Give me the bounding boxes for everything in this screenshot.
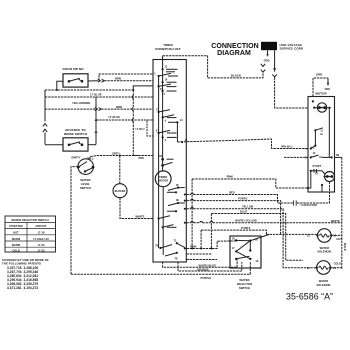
timer terminal 5 (162, 90, 177, 96)
wire grey run down to buzzer (119, 155, 121, 184)
timer contact white entry (158, 216, 171, 220)
wire WHITE+YELLOW timer to white return (184, 218, 342, 223)
wire bus to rinse switch (45, 144, 63, 146)
svg-text:POSITION: POSITION (9, 224, 22, 228)
svg-text:3E: 3E (176, 199, 179, 202)
water selector switch table (5, 216, 56, 252)
svg-text:GRD: GRD (325, 88, 331, 91)
wire LT BLU vertical drop to timer (132, 90, 140, 156)
timer right-side contact 3E (167, 191, 185, 212)
ground pin arrow of plug (264, 50, 270, 62)
svg-text:6: 6 (165, 120, 167, 123)
timer terminal 2 (162, 136, 177, 142)
svg-text:WARM: WARM (12, 237, 20, 241)
svg-text:PURPLE: PURPLE (201, 276, 212, 280)
timer terminal B1 (159, 155, 173, 160)
svg-text:1: 1 (154, 73, 156, 76)
svg-text:8: 8 (156, 129, 158, 132)
svg-text:COLD: COLD (12, 248, 20, 252)
cold water solenoid (307, 261, 341, 275)
svg-text:2: 2 (165, 139, 167, 142)
svg-text:WARM: WARM (12, 243, 20, 247)
wire black lead from timer to plug (163, 56, 263, 78)
wire door switch to timer (BRN) with inline connector (88, 77, 153, 83)
line voltage service cord plug (261, 42, 277, 50)
timer bottom contact TE (165, 252, 178, 261)
white return bus (331, 157, 342, 269)
wire PURPLE long run water level to selector 19 (71, 262, 250, 280)
svg-text:YELLOW/RED: YELLOW/RED (72, 101, 90, 105)
wire YELLOW timer to cold solenoid (184, 204, 317, 267)
svg-text:LT BLUE: LT BLUE (109, 115, 121, 119)
wire line lead from plug to motor (275, 78, 308, 109)
connector chevrons on line lead (272, 74, 276, 77)
svg-text:1: 1 (87, 170, 89, 172)
label WATER SELECTOR SWITCH (237, 278, 253, 290)
wire LT BLUE upper (45, 93, 153, 97)
buzzer (113, 184, 127, 198)
timer terminal 12 (162, 66, 178, 72)
patent notice text (2, 258, 49, 290)
svg-text:LT BLU: LT BLU (136, 128, 145, 131)
svg-text:HI: HI (320, 133, 323, 136)
svg-text:WHITE: WHITE (331, 219, 340, 223)
wire short drop x147 (147, 121, 153, 136)
svg-text:KNOB/PUSH OFF: KNOB/PUSH OFF (155, 47, 181, 51)
svg-text:LT BLUE: LT BLUE (90, 93, 102, 97)
timer internal bus left (158, 76, 160, 248)
svg-text:PURP.2: PURP.2 (241, 226, 251, 230)
motor main winding (312, 100, 331, 112)
svg-text:WATER: WATER (320, 246, 329, 250)
wire terminal 12 to black lead (162, 56, 164, 70)
timer terminal 6 (162, 115, 177, 123)
svg-text:20: 20 (232, 238, 235, 241)
label ADVANCE TO RINSE SWITCH (64, 128, 88, 136)
svg-text:RED: RED (229, 190, 235, 194)
timer terminal 13 (168, 119, 183, 143)
line pin arrow of plug (273, 50, 276, 72)
riser bus C right of timer (210, 214, 212, 249)
timer terminal B2 (161, 162, 172, 166)
wire rinse switch riser with arrows (95, 97, 98, 145)
svg-text:17-20: 17-20 (38, 248, 45, 252)
wire PURPLE timer to hot feed junction (184, 196, 281, 234)
riser bus B right of timer (200, 230, 202, 248)
motor box (308, 97, 335, 193)
title: CONNECTION DIAGRAM (211, 43, 259, 57)
svg-text:20: 20 (307, 267, 310, 270)
svg-text:TL: TL (174, 239, 178, 242)
svg-text:F2: F2 (315, 173, 319, 176)
wire WHITE buzzer to timer (120, 198, 153, 219)
svg-text:1M: 1M (336, 154, 339, 157)
label LINE VOLTAGE SERVICE CORD (280, 43, 304, 51)
svg-text:17: 17 (232, 247, 235, 250)
timer bottom contact TL (174, 239, 185, 247)
svg-text:WHITE: WHITE (136, 214, 145, 218)
wire timer bottom ORANGE to selector (178, 262, 242, 272)
motor bottom terminal for pink (307, 171, 323, 192)
svg-text:WATER SELECTOR SWITCH: WATER SELECTOR SWITCH (11, 218, 48, 222)
svg-text:WHITE+YELLOW: WHITE+YELLOW (235, 218, 257, 222)
rinse switch SW2 (63, 138, 88, 151)
wire fork door switch to timer terminal 1 (99, 74, 153, 81)
svg-text:HOT: HOT (337, 238, 343, 241)
svg-text:DIAGRAM: DIAGRAM (217, 50, 251, 57)
timer right-side contact 3F (168, 184, 185, 191)
svg-text:EMPTY: EMPTY (72, 156, 81, 160)
motor speed contacts (305, 108, 332, 160)
wire hot solenoid to white return (331, 234, 342, 236)
svg-text:YELLOW: YELLOW (242, 204, 254, 208)
svg-text:17-20: 17-20 (38, 243, 45, 247)
svg-text:GRN: GRN (316, 72, 322, 76)
svg-text:PINK: PINK (190, 244, 196, 248)
svg-text:TE: TE (175, 257, 179, 260)
connector chevrons on black lead (261, 64, 265, 72)
svg-text:MOTOR: MOTOR (158, 180, 168, 183)
svg-text:HI: HI (320, 156, 323, 159)
wire motor to white return 1M (335, 154, 342, 157)
door switch SW1 (63, 74, 88, 87)
wire stub to motor terminal 3 (284, 156, 308, 158)
timer terminal 14 (158, 84, 177, 91)
wire timer bottom WHITE+BLUE to selector 17 (163, 260, 238, 268)
svg-text:17-18&17-20: 17-18&17-20 (33, 237, 49, 241)
svg-text:19: 19 (255, 260, 258, 263)
wire rinse switch to riser (88, 144, 96, 146)
wire bus to timer via jog (y90) (45, 86, 153, 91)
svg-text:SERVICE CORD: SERVICE CORD (280, 46, 304, 50)
svg-text:HOT: HOT (13, 231, 19, 235)
timer terminal 8 (156, 129, 177, 134)
svg-text:PINK: PINK (227, 175, 233, 179)
svg-text:5: 5 (164, 93, 166, 96)
timer bottom contact 7B (155, 245, 172, 249)
svg-text:THE FOLLOWING PATENTS: THE FOLLOWING PATENTS (2, 261, 41, 265)
wire GREY water level switch to timer (89, 151, 154, 160)
motor start winding (310, 164, 335, 182)
svg-text:WHITE+BLUE: WHITE+BLUE (199, 263, 217, 267)
svg-text:SWITCH: SWITCH (80, 186, 91, 190)
wire BLUE riser to cold feed (211, 209, 303, 260)
wire cold solenoid to white return (330, 267, 342, 269)
wire timer edge stub y259.5 (187, 259, 218, 261)
label TIMER KNOB/PUSH OFF (155, 43, 181, 51)
timer terminal 16 (162, 79, 177, 84)
label WATER SOLENOID (hot) (317, 246, 331, 254)
svg-text:ORANGE: ORANGE (197, 268, 209, 272)
svg-text:COLD: COLD (334, 262, 341, 265)
svg-text:PURP.2: PURP.2 (238, 196, 248, 200)
svg-text:3,371,381 4,194,373: 3,371,381 4,194,373 (7, 286, 38, 290)
svg-text:3F: 3F (176, 184, 179, 187)
timer internal bus right (162, 69, 164, 171)
svg-text:PNK: PNK (139, 157, 145, 160)
svg-text:7B: 7B (155, 245, 158, 248)
wire door switch down to bus junction (45, 81, 63, 121)
svg-text:BLACK: BLACK (231, 73, 242, 77)
wire capacitor to start winding (297, 182, 330, 204)
wire YELLOW/RED to BRN with inline connector (45, 105, 153, 111)
wire RED timer to capacitor (184, 190, 293, 203)
wire timer 18 to motor terminal 5 (177, 139, 308, 149)
wire water level switch left down to purple run (71, 167, 78, 275)
svg-text:WATER: WATER (319, 279, 328, 283)
timer box (153, 60, 186, 263)
wire PINK riser to motor start feed (192, 175, 308, 188)
connector chevrons on left bus (43, 124, 47, 145)
svg-text:BLUE: BLUE (240, 209, 247, 213)
label WATER SOLENOID (cold) (317, 279, 331, 287)
svg-text:GRD: GRD (264, 59, 270, 63)
timer contact pair y227 (162, 225, 177, 229)
svg-text:35-6586 “A”: 35-6586 “A” (286, 291, 333, 301)
water selector switch box (230, 236, 261, 268)
svg-text:16: 16 (165, 79, 168, 82)
wire PINK timer bottom to selector 20 (184, 241, 236, 250)
svg-text:CIRCUIT: CIRCUIT (35, 224, 47, 228)
capacitor (294, 200, 317, 206)
timer motor (155, 171, 171, 187)
svg-text:SWITCH: SWITCH (239, 286, 250, 290)
label WATER LEVEL SWITCH (80, 178, 91, 190)
svg-text:10: 10 (313, 152, 316, 155)
hot water solenoid (307, 229, 342, 243)
svg-text:SOLENOID: SOLENOID (317, 250, 331, 254)
water level switch (77, 159, 94, 175)
svg-text:13: 13 (180, 119, 183, 122)
svg-text:3PH-BLU: 3PH-BLU (281, 145, 293, 149)
svg-text:BUZZER: BUZZER (115, 189, 126, 193)
svg-text:GREY: GREY (112, 151, 120, 155)
svg-text:17-18: 17-18 (38, 231, 45, 235)
wire PURPLE riser and hot solenoid feed (201, 226, 317, 241)
svg-text:RINSE SWITCH: RINSE SWITCH (64, 132, 88, 136)
svg-text:18: 18 (255, 238, 258, 241)
svg-text:BRN: BRN (116, 105, 122, 109)
timer terminal 1 (154, 73, 178, 78)
svg-text:START: START (313, 164, 322, 168)
svg-text:MOTOR: MOTOR (315, 92, 327, 96)
svg-text:CONNECTION: CONNECTION (211, 43, 259, 50)
wire timer edge stub y254 (187, 253, 212, 255)
timer terminal 17 (156, 108, 170, 113)
svg-text:SOLENOID: SOLENOID (317, 283, 331, 287)
riser bus A right of timer (191, 179, 193, 249)
wire LT BLUE lower (96, 115, 153, 120)
svg-text:12: 12 (165, 66, 168, 69)
svg-text:BRN: BRN (115, 77, 121, 81)
wire GRN ground strap (313, 72, 330, 96)
svg-text:DOOR SW NO: DOOR SW NO (63, 67, 85, 71)
svg-text:BLK-R: BLK-R (343, 243, 346, 251)
